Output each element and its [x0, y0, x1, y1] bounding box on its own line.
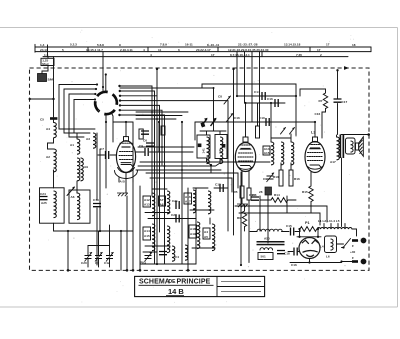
switch contact — [344, 239, 351, 247]
svg-text:C16: C16 — [315, 112, 321, 116]
tube V4 rectifier — [299, 238, 320, 259]
ground — [117, 193, 128, 196]
diode arrow — [281, 128, 286, 135]
svg-text:S/M: S/M — [48, 78, 54, 82]
title block outer box — [135, 276, 265, 296]
wire — [152, 188, 167, 190]
wire — [342, 247, 344, 249]
wire — [47, 57, 49, 59]
antenna wire — [30, 98, 54, 100]
tube V4 top bar — [297, 236, 321, 238]
svg-text:C7: C7 — [100, 147, 104, 151]
svg-text:C16: C16 — [234, 116, 240, 120]
resistor R10 — [279, 170, 283, 186]
svg-text:4: 4 — [143, 48, 145, 52]
tube V2 cathode — [241, 166, 252, 168]
trimmer C12 — [106, 252, 114, 261]
switch fan wire 6 — [120, 110, 162, 165]
tube V4 filament — [303, 250, 318, 252]
label box — [263, 146, 270, 155]
wire — [214, 187, 228, 189]
svg-text:L6: L6 — [326, 255, 330, 259]
wire long drop — [132, 122, 134, 270]
node — [52, 98, 54, 100]
trimmer C8 — [224, 96, 231, 104]
svg-text:A4: A4 — [204, 230, 208, 234]
svg-text:9: 9 — [119, 43, 121, 47]
capacitor C17 — [337, 71, 339, 99]
svg-text:R7: R7 — [319, 99, 323, 103]
dashed frame — [30, 68, 370, 270]
svg-text:A7: A7 — [160, 198, 164, 202]
mains entry box — [41, 58, 54, 65]
wire T1 top link — [200, 130, 226, 132]
wire choke to plug — [352, 229, 357, 236]
capacitor C19 — [93, 204, 101, 207]
svg-text:28: 28 — [259, 190, 263, 194]
wire — [53, 170, 55, 188]
switch fan wire 5 — [120, 105, 160, 232]
trimmer PH1 — [145, 252, 153, 261]
svg-text:+40: +40 — [350, 250, 356, 254]
wire — [96, 133, 98, 200]
bus right tick — [370, 47, 372, 52]
title divider vertical — [216, 276, 218, 296]
tube V3 bottom lead — [310, 172, 312, 186]
capacitor C9 — [136, 151, 144, 153]
oscillator coil — [193, 190, 196, 213]
wire lower verticals — [120, 231, 122, 270]
plug F2 — [352, 260, 358, 263]
svg-text:C20: C20 — [81, 261, 87, 265]
label box — [203, 228, 210, 239]
svg-text:8.-10.-11: 8.-10.-11 — [207, 43, 219, 47]
tube V1 grids — [120, 151, 133, 153]
tube V1 anode — [122, 146, 131, 148]
wire — [250, 231, 257, 233]
tube V3 cathode — [310, 165, 321, 167]
capacitor C8 — [141, 131, 149, 134]
title cell rule — [221, 281, 261, 283]
wire — [99, 149, 101, 231]
title cell rule — [221, 291, 261, 293]
oscillator coil — [208, 191, 211, 214]
wire bottom run — [140, 263, 196, 265]
svg-text:A18: A18 — [190, 227, 196, 231]
resistor R11 — [256, 126, 260, 138]
svg-text:A25: A25 — [41, 201, 47, 205]
tube V3 grid cap — [313, 137, 318, 142]
svg-text:C10: C10 — [259, 116, 265, 120]
wire — [209, 218, 211, 224]
svg-text:C9: C9 — [263, 177, 267, 181]
capacitor C4 — [159, 252, 167, 255]
bus left bracket — [34, 44, 36, 52]
switch fan wire 4 — [120, 101, 228, 122]
title divider horizontal — [217, 286, 265, 288]
potentiometer arrow — [211, 119, 217, 127]
svg-text:C4L: C4L — [218, 148, 222, 154]
wire transformer bottom drop — [341, 158, 343, 227]
wire — [145, 212, 170, 214]
trimmer C20 — [85, 252, 93, 261]
coil A1 column 2 — [76, 133, 78, 139]
detector coil 1 — [270, 138, 272, 142]
wire — [290, 262, 342, 264]
wire T1 bottoms — [207, 158, 212, 173]
bus tick — [217, 47, 219, 52]
svg-text:L1 L2 L3 L4 L5: L1 L2 L3 L4 L5 — [318, 219, 340, 223]
svg-text:C4: C4 — [175, 255, 179, 259]
svg-text:A17: A17 — [330, 160, 336, 164]
box antenna coil A24 — [40, 188, 65, 223]
coil A6 — [77, 193, 80, 220]
audio transformer secondary — [260, 248, 273, 250]
mesh wire y170 — [136, 169, 221, 171]
tuning gang lead 3 — [109, 225, 111, 255]
oscillator bank vertical wire — [187, 188, 189, 270]
box L4 — [325, 236, 337, 253]
wire — [342, 261, 353, 263]
coil A3 column 3 — [93, 133, 96, 148]
wire — [280, 163, 282, 170]
svg-text:R5: R5 — [234, 190, 238, 194]
svg-text:A9: A9 — [84, 165, 88, 169]
tube V1 cathode lead — [125, 172, 127, 193]
capacitor C14 — [262, 92, 265, 100]
tube V1 cathode — [121, 165, 133, 168]
wire C9 extension — [159, 151, 193, 153]
coil — [172, 246, 175, 261]
tube V1 envelope — [116, 141, 135, 173]
potentiometer arrow — [202, 119, 208, 127]
wire — [158, 122, 160, 152]
detector coil 3 — [291, 142, 294, 165]
component Z8 — [265, 187, 272, 195]
tube V3 grids — [308, 152, 323, 154]
resistor P1 — [300, 227, 317, 232]
switch bottom lead — [105, 114, 107, 189]
svg-text:20.22.4.17: 20.22.4.17 — [196, 48, 211, 52]
svg-text:A17: A17 — [185, 200, 191, 204]
switch fan wire 7 — [120, 115, 165, 264]
svg-text:17: 17 — [211, 53, 215, 57]
ground — [241, 198, 243, 204]
bus drop wire — [259, 52, 261, 138]
mesh wire y115.5 — [136, 115, 182, 117]
tube V2 leads bottom — [241, 171, 243, 186]
svg-text:A12: A12 — [144, 198, 150, 202]
resistor R14 — [271, 198, 288, 203]
wire plate feed — [235, 206, 327, 222]
svg-text:C21: C21 — [172, 199, 178, 203]
wire bank drop — [181, 122, 183, 264]
svg-text:C15: C15 — [286, 224, 292, 228]
svg-text:C19: C19 — [93, 198, 99, 202]
switch fan wire 1 — [120, 86, 153, 196]
wire choke ticks — [323, 224, 325, 228]
long vertical — [259, 196, 261, 231]
tube V2 grids — [239, 152, 253, 154]
wire — [156, 190, 158, 264]
svg-text:C22: C22 — [171, 213, 177, 217]
svg-text:5.6.8: 5.6.8 — [97, 43, 104, 47]
tube V1 base — [118, 168, 135, 173]
svg-text:2.16.4.11: 2.16.4.11 — [120, 48, 133, 52]
capacitor C6 — [146, 143, 154, 146]
capacitor C7 — [98, 154, 105, 156]
trimmer C16b — [227, 114, 234, 122]
tube V3 envelope — [305, 142, 325, 173]
svg-text:2: 2 — [320, 53, 322, 57]
wire — [76, 186, 78, 193]
coil A24 — [54, 191, 57, 218]
svg-text:C17: C17 — [342, 100, 348, 104]
AVC horizontal runs — [146, 173, 238, 188]
svg-text:C8: C8 — [218, 95, 222, 99]
tuning gang lead 1 — [87, 246, 89, 256]
bus drop wire — [244, 52, 246, 103]
tube V2 envelope — [235, 143, 255, 172]
output transformer core — [340, 135, 342, 159]
svg-text:A4: A4 — [46, 127, 50, 131]
wire box to switch — [337, 243, 344, 245]
resistor R2 — [161, 126, 165, 135]
svg-text:A8: A8 — [160, 203, 164, 207]
svg-text:A19: A19 — [190, 232, 196, 236]
audio transformer primary — [257, 229, 282, 231]
svg-text:R15: R15 — [302, 190, 308, 194]
svg-text:8.7.16.16.12.1: 8.7.16.16.12.1 — [230, 53, 250, 57]
svg-text:A5: A5 — [204, 235, 208, 239]
switch left route 4 — [74, 100, 95, 134]
audio transformer core — [257, 241, 285, 243]
capacitor C22 — [176, 215, 179, 223]
wire long vertical — [227, 122, 229, 231]
capacitor C15 — [291, 228, 294, 236]
oscillator coil A12 — [152, 193, 155, 216]
node — [67, 269, 70, 272]
svg-text:A50: A50 — [264, 237, 270, 241]
svg-text:A B: A B — [120, 180, 126, 184]
wire speaker top — [341, 134, 369, 136]
node — [29, 98, 31, 100]
padder arrow — [67, 187, 75, 196]
scan speckles — [40, 30, 361, 303]
speaker — [356, 143, 359, 150]
svg-text:A3: A3 — [86, 137, 90, 141]
switch left route 1 — [59, 85, 97, 130]
capacitor C10 — [266, 118, 269, 126]
oscillator coil low 1 — [152, 224, 155, 251]
svg-text:14 B: 14 B — [168, 287, 184, 296]
capacitor C5 — [50, 117, 57, 120]
svg-text:11: 11 — [158, 48, 162, 52]
svg-text:P1: P1 — [305, 221, 310, 225]
node — [151, 111, 153, 113]
bus drop wire — [236, 52, 238, 96]
label box — [159, 196, 166, 206]
speaker coil box — [346, 138, 356, 154]
wire — [42, 66, 48, 74]
tube V3 anode — [310, 147, 320, 149]
output transformer coil A17 — [336, 135, 338, 137]
wire — [270, 103, 272, 138]
bus tick — [147, 47, 149, 52]
svg-text:12.31.16.29.8.10.35.26.34.30: 12.31.16.29.8.10.35.26.34.30 — [228, 48, 269, 52]
HT wire y96 — [237, 95, 296, 97]
oscillator bank extra link — [148, 218, 196, 220]
switch fan wire 3 — [120, 96, 157, 204]
node — [67, 230, 69, 232]
wire — [310, 202, 312, 214]
tube V1 grid cap — [124, 137, 129, 142]
svg-text:141: 141 — [202, 148, 206, 153]
capacitor C13 — [220, 184, 223, 192]
oscillator coil — [167, 191, 170, 214]
mesh wire y162 — [140, 161, 270, 163]
svg-text:4: 4 — [150, 53, 152, 57]
trimmer C9b — [267, 173, 275, 182]
svg-text:24,13: 24,13 — [40, 48, 48, 52]
svg-text:SCHEMA: SCHEMA — [139, 279, 170, 286]
svg-text:13.14.15.18: 13.14.15.18 — [284, 43, 301, 47]
svg-text:10,15,1 11,7: 10,15,1 11,7 — [86, 48, 103, 52]
IF transformer T1 winding box a — [197, 135, 210, 158]
svg-text:17: 17 — [317, 48, 321, 52]
svg-text:C16: C16 — [267, 97, 273, 101]
resistor R1 — [139, 129, 143, 139]
svg-text:7.8.9: 7.8.9 — [160, 43, 167, 47]
bus tick — [47, 45, 49, 57]
capacitor C24 — [40, 197, 48, 200]
bus line 3 — [43, 56, 348, 58]
paper top edge — [0, 27, 398, 29]
resistor R6 — [247, 188, 251, 200]
oscillator coil low 4 — [212, 224, 215, 251]
wire grid top — [113, 121, 133, 123]
oscillator coil low 3 — [197, 222, 200, 249]
svg-text:A15: A15 — [144, 234, 150, 238]
mesh wire y112 — [136, 111, 188, 113]
svg-text:C24: C24 — [40, 192, 46, 196]
resistor R15 — [309, 186, 313, 202]
resistor R16 — [289, 170, 293, 186]
node — [99, 230, 101, 232]
bus tick — [87, 47, 89, 52]
svg-text:501: 501 — [261, 255, 266, 259]
svg-text:1,4: 1,4 — [40, 43, 45, 47]
wire — [145, 245, 170, 247]
switch bottom lead 2 — [111, 112, 113, 142]
plug F1 — [352, 239, 358, 242]
frame arrow — [344, 66, 349, 70]
wire switch stem — [102, 52, 104, 93]
svg-text:R14: R14 — [274, 193, 280, 197]
svg-text:A14: A14 — [144, 229, 150, 233]
coil A2 — [54, 149, 57, 172]
svg-text:6: 6 — [178, 48, 180, 52]
wire to frame bottom — [67, 231, 69, 270]
coil A4 — [54, 123, 57, 138]
mesh wire y166 — [138, 165, 215, 167]
svg-text:22.-23.-27.-28: 22.-23.-27.-28 — [238, 43, 258, 47]
wire — [96, 208, 98, 265]
oscillator bank vertical wire — [139, 186, 141, 270]
svg-text:A6: A6 — [71, 195, 75, 199]
wire — [54, 223, 134, 231]
switch left route 2 — [64, 89, 96, 133]
svg-text:F: F — [352, 244, 354, 248]
long vertical — [240, 172, 242, 265]
detector coil 2 — [281, 142, 284, 165]
wire — [48, 138, 54, 149]
switch left route 3 — [69, 94, 95, 137]
svg-text:R16: R16 — [294, 177, 300, 181]
filter chokes L1-L5 — [317, 227, 352, 229]
diode arrow — [290, 128, 295, 135]
svg-text:A13: A13 — [144, 203, 150, 207]
wire y103 — [245, 102, 286, 104]
bus line 2 — [35, 51, 371, 53]
tube V2 anode — [241, 148, 251, 150]
long vertical — [248, 200, 250, 263]
tuning gang lead 2 — [98, 231, 100, 255]
bus line 1 — [35, 46, 371, 48]
svg-text:PRINCIPE: PRINCIPE — [177, 279, 211, 286]
wire antenna column — [53, 57, 55, 117]
svg-text:7.65: 7.65 — [296, 53, 302, 57]
svg-text:A15: A15 — [264, 151, 270, 155]
wire grid feed — [120, 88, 214, 122]
tube V3 top lead — [314, 122, 316, 137]
mesh wire y147 — [138, 146, 194, 148]
switch fan wire 2 — [120, 91, 155, 264]
capacitor C21 — [176, 201, 179, 209]
svg-text:17: 17 — [326, 43, 330, 47]
svg-text:R10: R10 — [273, 175, 279, 179]
resistor R9 — [242, 211, 246, 227]
mesh wire y119 — [136, 118, 176, 120]
tube V4 bottom lead — [309, 259, 311, 263]
wire y84 run — [202, 84, 296, 96]
switch S/M — [38, 74, 47, 82]
resistor R7 — [323, 93, 327, 109]
AVC wire y122 — [195, 121, 315, 123]
svg-text:DE: DE — [169, 279, 177, 285]
bus drop wire — [251, 52, 253, 122]
coil — [185, 245, 188, 260]
wire gang link — [88, 245, 110, 247]
oscillator coil low 2 — [167, 226, 170, 253]
svg-text:A2: A2 — [46, 155, 50, 159]
node — [120, 230, 122, 232]
wire — [300, 89, 326, 96]
bus tick — [309, 47, 311, 52]
long vertical — [267, 195, 269, 243]
paper right edge — [397, 28, 399, 308]
bus tick — [261, 52, 263, 57]
svg-text:C13: C13 — [215, 183, 221, 187]
box coil A6 — [69, 190, 90, 223]
node — [102, 86, 104, 88]
resistor R5 — [240, 186, 244, 198]
rotary switch wafer — [113, 94, 117, 105]
wire det top link — [271, 137, 291, 139]
tube V2 top lead — [245, 103, 247, 137]
svg-text:R9: R9 — [237, 216, 241, 220]
IF transformer T1 winding box b — [215, 135, 227, 159]
